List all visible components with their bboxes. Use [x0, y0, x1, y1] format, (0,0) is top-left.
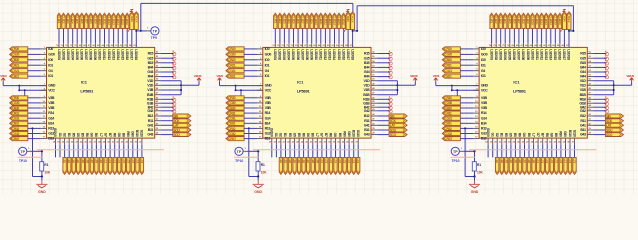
junction: [613, 89, 615, 91]
red arrow marker below boxes: [560, 29, 563, 31]
pin stub: [132, 138, 134, 144]
svg-text:B31: B31: [14, 122, 20, 126]
wire: [76, 29, 78, 44]
wire: [505, 144, 507, 157]
wire: [460, 53, 473, 55]
wire (to resistor bottom): [32, 128, 34, 176]
ground symbol GND (block 2): [253, 181, 264, 188]
wire: [244, 97, 257, 99]
ERC marker (red cross): [389, 74, 392, 79]
svg-text:LSD010: LSD010: [98, 49, 102, 60]
svg-text:B13: B13: [48, 137, 54, 141]
net label box LC1 (bottom, block 3): [536, 157, 540, 174]
svg-text:LSD002: LSD002: [494, 49, 498, 60]
junction: [180, 84, 182, 86]
svg-text:SCK: SCK: [606, 119, 613, 123]
svg-text:G42: G42: [580, 109, 586, 113]
net label box LED4 (top, block 1): [71, 13, 74, 28]
pin stub: [289, 138, 291, 144]
wire: [523, 29, 525, 44]
svg-text:LED9: LED9: [93, 17, 97, 24]
svg-text:B1B: B1B: [363, 93, 370, 97]
svg-text:SOU: SOU: [390, 128, 397, 132]
net label box LED5 (top, block 3): [508, 13, 511, 28]
svg-text:LB8: LB8: [527, 159, 531, 164]
svg-text:B8: B8: [338, 133, 342, 137]
svg-text:LSD007: LSD007: [300, 49, 304, 60]
net label box B20 (left upper, block 3): [442, 58, 460, 62]
wire: [236, 85, 263, 87]
svg-text:GND: GND: [265, 84, 273, 88]
net label box LB8 (bottom, block 3): [527, 157, 531, 174]
svg-text:LSD015: LSD015: [120, 49, 124, 60]
pin stub: [285, 138, 287, 144]
svg-text:G20: G20: [230, 53, 236, 57]
net label box R31 (left lower, block 2): [226, 111, 244, 115]
wire: [77, 144, 79, 157]
wire: [377, 66, 389, 68]
pin stub: [316, 138, 318, 144]
svg-text:LC6: LC6: [559, 159, 563, 164]
wire: [312, 144, 314, 157]
ERC marker (red cross): [389, 69, 392, 74]
junction: [352, 30, 354, 32]
svg-text:LC1: LC1: [104, 159, 108, 164]
wire: [377, 62, 389, 64]
junction: [473, 150, 475, 152]
net label box CLK (top pair right, block 3): [567, 12, 571, 30]
junction: [451, 85, 453, 87]
svg-text:V.BUS: V.BUS: [626, 74, 634, 78]
net label box SDI (top pair left, block 1): [130, 12, 134, 30]
pin stub: [155, 134, 161, 136]
net label box LB5 (bottom, block 1): [81, 157, 84, 174]
pin stub: [473, 59, 479, 61]
svg-text:V3B: V3B: [48, 101, 55, 105]
svg-text:LP5891: LP5891: [80, 89, 94, 94]
svg-text:B5: B5: [297, 133, 301, 137]
wire: [161, 62, 173, 64]
svg-text:IO0: IO0: [265, 58, 270, 62]
wire: [41, 171, 43, 177]
net label box LED1 (top, block 2): [274, 13, 277, 28]
pin stub: [371, 66, 377, 68]
svg-text:GND: GND: [254, 190, 262, 194]
svg-text:LED7: LED7: [84, 17, 88, 24]
net label box LED10 (top, block 2): [315, 13, 318, 28]
svg-text:LED3: LED3: [499, 17, 503, 24]
pin stub: [298, 138, 300, 144]
pin stub: [353, 138, 355, 144]
svg-text:G110: G110: [572, 130, 576, 137]
svg-text:B44: B44: [364, 66, 370, 70]
wire: [377, 115, 389, 117]
svg-text:B30: B30: [230, 106, 236, 110]
wire: [495, 29, 497, 44]
svg-text:B21: B21: [447, 75, 453, 79]
svg-text:B12: B12: [580, 114, 586, 118]
net label box RST (left lower, block 2): [226, 137, 244, 141]
pin stub: [532, 43, 534, 47]
svg-text:V3B: V3B: [481, 96, 488, 100]
svg-text:B110: B110: [568, 130, 572, 137]
ERC marker (red) above pair boxes: [130, 9, 133, 11]
junction: [140, 30, 142, 32]
wire: [28, 59, 41, 61]
net label box LB7 (bottom, block 1): [90, 157, 93, 174]
pin stub: [41, 59, 47, 61]
wire: [247, 150, 258, 152]
svg-text:LED6: LED6: [296, 17, 300, 24]
pin stub: [123, 138, 125, 144]
net label box LB3 (bottom, block 3): [505, 157, 508, 174]
wire: [297, 29, 299, 44]
svg-text:G21: G21: [230, 69, 236, 73]
wire: [161, 80, 181, 82]
wire: [311, 29, 313, 44]
ground symbol GND (block 1): [36, 181, 47, 188]
pin stub: [41, 102, 47, 104]
wire: [555, 144, 557, 157]
wire: [460, 112, 473, 114]
svg-text:B7: B7: [324, 133, 328, 137]
svg-text:G31: G31: [230, 117, 236, 121]
svg-text:LC5: LC5: [122, 159, 126, 164]
svg-text:LED1: LED1: [490, 17, 494, 24]
svg-text:LB4: LB4: [509, 159, 513, 164]
net label box LED15 (top, block 3): [554, 13, 557, 28]
svg-text:IO1: IO1: [48, 63, 53, 67]
wire: [550, 29, 552, 44]
svg-text:R30: R30: [447, 96, 453, 100]
junction: [456, 97, 458, 99]
svg-text:G15: G15: [364, 56, 370, 60]
svg-text:R90: R90: [559, 131, 563, 137]
junction: [248, 127, 250, 129]
net label box LC3 (bottom, block 1): [113, 157, 116, 174]
svg-text:LED1: LED1: [57, 17, 61, 24]
wire: [271, 144, 273, 157]
pin stub: [41, 107, 47, 109]
pin stub: [339, 138, 341, 144]
svg-text:B13: B13: [265, 137, 271, 141]
svg-text:LB5: LB5: [297, 159, 301, 164]
wire: [537, 144, 539, 157]
svg-text:RST: RST: [14, 137, 20, 141]
wire: [161, 66, 173, 68]
pin stub: [312, 138, 314, 144]
svg-text:LSD003: LSD003: [282, 49, 286, 60]
svg-text:LC8: LC8: [352, 159, 356, 164]
svg-text:10K: 10K: [44, 170, 51, 174]
svg-text:LSD017: LSD017: [562, 49, 566, 60]
pin stub: [41, 89, 47, 91]
svg-text:LC9: LC9: [573, 159, 577, 164]
ERC marker (red cross): [389, 108, 392, 113]
svg-text:LED3: LED3: [282, 17, 286, 24]
svg-text:B6: B6: [94, 133, 98, 137]
net wire (pale red) 1: [37, 149, 164, 151]
svg-text:TP: TP: [153, 29, 158, 33]
pin stub: [587, 71, 593, 73]
wire: [279, 29, 281, 44]
svg-text:LSD002: LSD002: [278, 49, 282, 60]
svg-text:G5: G5: [509, 133, 513, 137]
ERC marker (red cross): [173, 65, 176, 70]
net label box LED7 (top, block 3): [517, 13, 520, 28]
pin stub: [271, 138, 273, 144]
wire: [105, 144, 107, 157]
wire: [55, 144, 57, 157]
net label box RST (left lower, block 1): [10, 137, 28, 141]
svg-text:LSD013: LSD013: [544, 49, 548, 60]
net label box LB4 (bottom, block 2): [293, 157, 296, 174]
pin stub: [473, 48, 479, 50]
pin stub: [338, 43, 340, 47]
wire: [141, 144, 143, 157]
net label box B31 (left lower, block 3): [442, 121, 460, 125]
wire: [161, 94, 181, 96]
pin stub: [587, 89, 593, 91]
pin stub: [587, 106, 593, 108]
svg-text:B15: B15: [148, 61, 154, 65]
pin stub: [122, 43, 124, 47]
IC bottom inner pin names (rotated): [270, 128, 360, 137]
wire: [527, 29, 529, 44]
pin stub: [324, 43, 326, 47]
svg-text:LSD009: LSD009: [526, 49, 530, 60]
wire: [244, 48, 257, 50]
junction: [240, 89, 242, 91]
wire: [338, 29, 340, 44]
pin stub: [371, 120, 377, 122]
svg-text:LSD014: LSD014: [332, 49, 336, 60]
net label box LED5 (top, block 2): [292, 13, 295, 28]
net label box LC9 (bottom, block 1): [140, 157, 143, 174]
pin stub: [82, 138, 84, 144]
pin stub: [126, 43, 128, 47]
svg-text:LED13: LED13: [544, 17, 548, 25]
pin stub: [501, 138, 503, 144]
svg-text:TP10: TP10: [19, 159, 27, 163]
svg-text:G6: G6: [306, 133, 310, 137]
pin stub: [41, 64, 47, 66]
net label box LC5 (bottom, block 1): [122, 157, 126, 174]
pin stub: [307, 138, 309, 144]
svg-text:G6: G6: [522, 133, 526, 137]
svg-text:LB1: LB1: [495, 159, 499, 164]
svg-text:TP10: TP10: [451, 159, 459, 163]
svg-text:V.BUS: V.BUS: [410, 74, 418, 78]
wire: [343, 29, 345, 44]
wire: [2, 81, 4, 85]
net label box LC1 (bottom, block 2): [320, 157, 323, 174]
svg-text:LED15: LED15: [337, 17, 341, 25]
svg-text:G14: G14: [265, 116, 271, 120]
wire: [377, 57, 389, 59]
svg-text:R30: R30: [230, 96, 236, 100]
net label box SCO (right, block 1): [173, 133, 191, 137]
pin stub: [473, 117, 479, 119]
wire: [594, 129, 606, 131]
net label box LC5 (bottom, block 2): [338, 157, 341, 174]
ERC marker (red) above pair boxes: [563, 9, 566, 11]
wire: [594, 71, 606, 73]
svg-text:IO0: IO0: [48, 47, 53, 51]
svg-text:LC7: LC7: [347, 159, 351, 164]
svg-text:R13: R13: [481, 127, 487, 131]
svg-text:B44: B44: [580, 66, 586, 70]
svg-text:LSD004: LSD004: [503, 49, 507, 60]
net label box G20 (left upper, block 2): [226, 52, 244, 56]
net label box R32 (left lower, block 2): [226, 126, 244, 130]
wire drop into block3: [572, 6, 574, 31]
IC IC1 LP5891 LED driver (block 3): [479, 47, 587, 138]
IC IC1 LP5891 LED driver (block 1): [47, 47, 155, 138]
pin stub: [41, 122, 47, 124]
net label box LC7 (bottom, block 2): [347, 157, 350, 174]
svg-text:R20: R20: [230, 47, 236, 51]
svg-text:V3B: V3B: [481, 106, 488, 110]
wire: [460, 138, 473, 140]
wire: [518, 29, 520, 44]
wire: [244, 112, 257, 114]
pin stub: [243, 150, 247, 152]
wire: [330, 144, 332, 157]
supply symbol V3V3 (left, block 1): [1, 78, 5, 81]
pin stub: [371, 94, 377, 96]
svg-text:SCLK: SCLK: [351, 16, 355, 23]
pin stub: [303, 138, 305, 144]
pin stub: [473, 64, 479, 66]
svg-text:V3V3: V3V3: [217, 74, 224, 78]
svg-text:LED9: LED9: [310, 17, 314, 24]
svg-text:ISOV0: ISOV0: [53, 128, 57, 137]
pin stub: [68, 138, 70, 144]
wire: [90, 29, 92, 44]
net label box SOU (right, block 1): [173, 128, 191, 132]
pin stub: [348, 138, 350, 144]
pin stub: [492, 138, 494, 144]
svg-text:LSD005: LSD005: [291, 49, 295, 60]
ERC marker (red cross): [389, 97, 392, 102]
ERC marker (red cross): [605, 105, 608, 110]
svg-text:LC4: LC4: [117, 159, 121, 164]
pin stub: [587, 110, 593, 112]
svg-text:R5: R5: [72, 133, 76, 137]
net label box R31 (left lower, block 1): [10, 111, 28, 115]
pin stub: [587, 129, 593, 131]
wire: [594, 84, 614, 86]
wire: [28, 122, 41, 124]
net label box R30 (left lower, block 2): [226, 96, 244, 100]
wire: [28, 102, 41, 104]
net label box LC4 (bottom, block 2): [334, 157, 337, 174]
supply symbol V.BUS (right, block 2): [413, 78, 417, 81]
wire: [236, 89, 263, 91]
svg-text:V3B: V3B: [265, 96, 272, 100]
pin stub: [100, 138, 102, 144]
wire: [353, 144, 355, 157]
net label box B21 (left upper, block 1): [10, 74, 28, 78]
svg-text:SCO: SCO: [606, 133, 613, 137]
pin stub: [587, 94, 593, 96]
wire: [377, 106, 389, 108]
pin stub: [257, 85, 263, 87]
svg-text:B31: B31: [447, 122, 453, 126]
wire: [594, 80, 614, 82]
pin stub: [257, 102, 263, 104]
wire: [614, 84, 632, 86]
IC bottom inner pin names (rotated): [486, 128, 576, 137]
wire (vertical tie): [180, 81, 182, 95]
wire: [161, 71, 173, 73]
pin stub: [473, 85, 479, 87]
junction: [396, 89, 398, 91]
IC right inner pin names: [579, 52, 586, 137]
wire: [594, 98, 606, 100]
wire: [594, 110, 606, 112]
wire: [568, 31, 570, 48]
net label box G32 (left lower, block 3): [442, 131, 460, 135]
ERC marker (red cross): [605, 74, 608, 79]
pin stub: [72, 43, 74, 47]
pin stub: [559, 43, 561, 47]
wire: [491, 29, 493, 44]
pin stub: [371, 134, 377, 136]
wire: [533, 144, 535, 157]
wire: [181, 84, 199, 86]
wire: [559, 29, 561, 44]
svg-text:LSD012: LSD012: [107, 49, 111, 60]
wire: [117, 29, 119, 44]
net label box LC6 (bottom, block 1): [127, 157, 130, 174]
svg-text:LSD007: LSD007: [517, 49, 521, 60]
svg-text:LC9: LC9: [140, 159, 144, 164]
svg-text:LSD014: LSD014: [116, 49, 120, 60]
wire: [463, 150, 474, 152]
svg-text:B1B: B1B: [147, 93, 154, 97]
svg-text:LED13: LED13: [328, 17, 332, 25]
net label box LC6 (bottom, block 3): [559, 157, 562, 174]
net label box LB5 (bottom, block 2): [297, 157, 300, 174]
wire: [220, 85, 236, 87]
net label box LED15 (top, block 2): [337, 13, 340, 28]
svg-text:B20: B20: [14, 58, 20, 62]
wire: [283, 29, 285, 44]
ERC marker (red cross): [389, 60, 392, 65]
svg-text:LB1: LB1: [63, 159, 67, 164]
wire: [161, 124, 173, 126]
svg-text:B15: B15: [580, 61, 586, 65]
svg-text:B1: B1: [67, 133, 71, 137]
wire: [541, 29, 543, 44]
pin stub: [555, 138, 557, 144]
svg-text:R14: R14: [48, 111, 54, 115]
net label box LED10 (top, block 1): [98, 13, 101, 28]
svg-text:R32: R32: [14, 127, 20, 131]
svg-text:LSD009: LSD009: [310, 49, 314, 60]
svg-text:G14: G14: [481, 116, 487, 120]
wire: [500, 29, 502, 44]
net label box LB6 (bottom, block 2): [302, 157, 305, 174]
svg-text:G30: G30: [447, 101, 453, 105]
wire: [161, 129, 173, 131]
junction: [473, 175, 475, 177]
svg-text:L7: L7: [99, 133, 103, 137]
wire: [244, 107, 257, 109]
wire: [460, 48, 473, 50]
